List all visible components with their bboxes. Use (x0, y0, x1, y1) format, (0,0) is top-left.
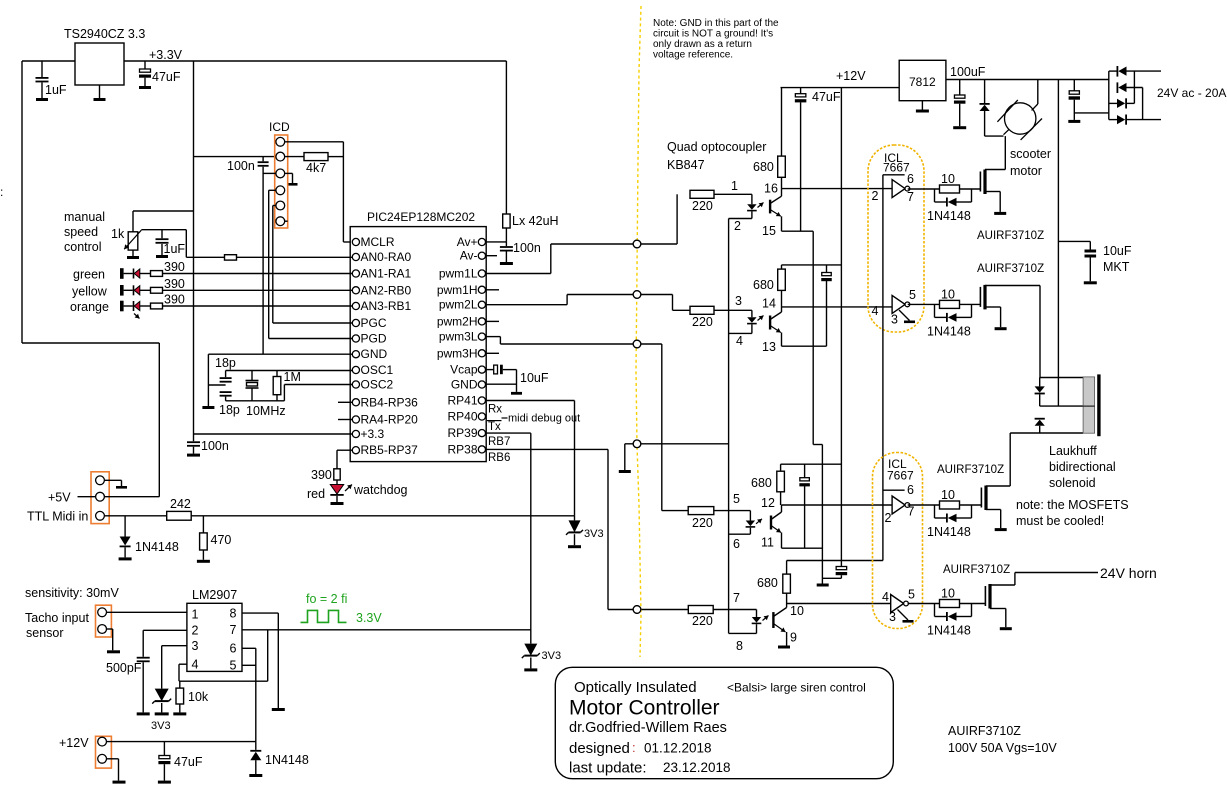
svg-text:220: 220 (692, 614, 713, 628)
svg-text:RP38: RP38 (447, 442, 477, 456)
svg-text:designed: designed (569, 740, 630, 757)
ground regulator (99, 85, 101, 98)
svg-text:5: 5 (733, 492, 740, 506)
wire solenoid bottom rail (1010, 432, 1083, 434)
capacitor 500pF (142, 630, 144, 657)
capacitor 47uF 12V (163, 742, 165, 756)
pin MCLR (352, 238, 359, 245)
pin Av+ (478, 238, 485, 245)
wire pin6 U4 (882, 175, 884, 561)
svg-text:3: 3 (735, 294, 742, 308)
wire LM pin6 (242, 647, 256, 649)
optocoupler LED 5-6 (749, 511, 751, 521)
capacitor 10uF Vcap (486, 369, 494, 371)
wire GND pin (208, 353, 352, 355)
svg-text:Laukhuff: Laukhuff (1049, 444, 1097, 458)
diode 1N4148 gate (934, 189, 936, 202)
svg-text:RA4-RP20: RA4-RP20 (361, 413, 419, 427)
svg-text:+3.3: +3.3 (361, 427, 385, 441)
ground 100n (187, 454, 200, 457)
node pwm1L (633, 240, 641, 248)
svg-text:manual: manual (64, 210, 105, 224)
svg-text:1N4148: 1N4148 (927, 624, 971, 638)
wire ICD pin1 to MCLR (285, 141, 344, 143)
svg-text:5: 5 (230, 659, 237, 673)
svg-text:RB5-RP37: RB5-RP37 (361, 443, 419, 457)
svg-text:RB7: RB7 (488, 436, 510, 448)
svg-text:7667: 7667 (887, 469, 914, 483)
svg-text:+3.3V: +3.3V (149, 48, 183, 62)
ground 7812 (921, 101, 923, 110)
wire frame bottom to +5V (22, 342, 159, 344)
pin RB5-RP37 (352, 447, 359, 454)
resistor 680 opto3 (780, 464, 782, 471)
svg-text:Rx: Rx (488, 404, 502, 416)
svg-text:1N4148: 1N4148 (927, 209, 971, 223)
pin GND (352, 351, 359, 358)
wire ICD pin6 stub (285, 220, 288, 222)
svg-text:yellow: yellow (72, 284, 108, 298)
svg-text:pwm2L: pwm2L (439, 298, 478, 312)
svg-text:7: 7 (908, 505, 915, 519)
svg-text:Vcap: Vcap (450, 363, 478, 377)
svg-text:24V ac - 20A: 24V ac - 20A (1157, 86, 1226, 100)
waveform square (301, 610, 347, 622)
wire ICD pin4 to PGD (269, 189, 276, 191)
wire Av- stub (486, 255, 497, 257)
ground 100n Av (500, 262, 513, 265)
isolation boundary yellow (636, 6, 641, 657)
svg-text:PIC24EP128MC202: PIC24EP128MC202 (367, 210, 475, 224)
svg-text:4: 4 (736, 334, 743, 348)
ground tacho pin2 (107, 628, 113, 630)
svg-text:control: control (64, 240, 102, 254)
wire LM pin5 (242, 664, 256, 666)
resistor 220 opto2 (690, 306, 714, 314)
wire emitter11 (782, 547, 823, 549)
svg-text:pwm3H: pwm3H (437, 346, 478, 360)
bridge rectifier (1108, 71, 1110, 120)
svg-text:OSC2: OSC2 (361, 378, 394, 392)
svg-text:3.3V: 3.3V (356, 611, 382, 625)
svg-text:MKT: MKT (1103, 260, 1130, 274)
pin Vcap (478, 366, 485, 373)
pin RB4-RP36 (352, 399, 359, 406)
MOSFET AUIRF3710Z (984, 586, 986, 606)
svg-text:RP41: RP41 (447, 394, 477, 408)
wire M2 drain rail (1040, 377, 1083, 379)
svg-text:Motor Controller: Motor Controller (569, 697, 720, 720)
capacitor 100n Av (505, 242, 507, 246)
diode solenoid lower (1035, 418, 1045, 420)
svg-text:1M: 1M (284, 370, 301, 384)
svg-text:680: 680 (753, 160, 774, 174)
wire collector16 row (782, 188, 893, 190)
svg-text:PGC: PGC (361, 316, 387, 330)
wire 24V vertical (1057, 80, 1059, 407)
wire solenoid mid rail (1040, 405, 1083, 407)
wire LM pin2 (143, 629, 187, 631)
ground return (624, 444, 626, 470)
pin pwm2H (478, 318, 485, 325)
wire +12V opto rail (781, 87, 900, 89)
wire +3.3V rail (193, 61, 195, 441)
wire +5V (104, 496, 159, 498)
optocoupler LED 7-8 (756, 610, 758, 618)
svg-text:100V 50A Vgs=10V: 100V 50A Vgs=10V (948, 741, 1057, 755)
svg-text:4: 4 (872, 304, 879, 318)
resistor 10k (179, 681, 181, 688)
svg-text:TS2940CZ 3.3: TS2940CZ 3.3 (64, 27, 145, 41)
wire +12V horn rail (787, 560, 883, 562)
resistor 1M (276, 371, 278, 377)
wire emitter13 (782, 345, 827, 347)
svg-text:680: 680 (751, 476, 772, 490)
IC U3 LM2907 (187, 603, 242, 671)
svg-text:9: 9 (790, 631, 797, 645)
node return (633, 440, 641, 448)
svg-text:solenoid: solenoid (1049, 476, 1096, 490)
wire source M3 ground (986, 509, 1001, 511)
wire OSC2 loop (226, 400, 285, 402)
zener 3V3 LM (155, 689, 169, 702)
svg-text:PGD: PGD (361, 332, 387, 346)
crystal 10MHz (251, 371, 253, 381)
svg-text:1uF: 1uF (45, 83, 67, 97)
motor scooter (1005, 103, 1036, 134)
svg-text:01.12.2018: 01.12.2018 (644, 741, 712, 756)
svg-text:10uF: 10uF (1103, 244, 1132, 258)
wire ICD pin3 stub (263, 172, 276, 174)
pin RP40 (478, 413, 485, 420)
svg-text:AN1-RA1: AN1-RA1 (361, 267, 412, 281)
wire return line (812, 231, 814, 444)
svg-text:speed: speed (64, 225, 98, 239)
pin OSC1 (352, 366, 359, 373)
svg-text:<Balsi> large siren control: <Balsi> large siren control (727, 681, 866, 695)
resistor 242 (167, 511, 192, 520)
capacitor 1uF input (41, 61, 43, 77)
resistor 10 gate (908, 603, 940, 605)
svg-text:6: 6 (907, 172, 914, 186)
svg-text:100n: 100n (201, 439, 229, 453)
pin RA4-RP20 (352, 416, 359, 423)
svg-text:voltage reference.: voltage reference. (653, 50, 733, 61)
svg-text:10: 10 (790, 604, 804, 618)
wire drain M3 (986, 485, 1010, 487)
pin Av- (478, 252, 485, 259)
svg-text:1: 1 (731, 179, 738, 193)
connector +12V (96, 736, 112, 768)
pin AN2-RB0 (352, 287, 359, 294)
pin +3.3 (352, 430, 359, 437)
svg-text:10MHz: 10MHz (246, 404, 286, 418)
capacitor 18p bottom (220, 391, 232, 393)
resistor 220 opto1 (690, 190, 714, 198)
ground GND leg (207, 354, 209, 406)
svg-text:MCLR: MCLR (361, 235, 395, 249)
svg-text:7667: 7667 (883, 161, 910, 175)
svg-text:220: 220 (692, 516, 713, 530)
svg-text:pwm2H: pwm2H (437, 314, 478, 328)
ground U4 pin3 (899, 310, 910, 321)
capacitor 47uF output (144, 61, 146, 69)
svg-text:RP40: RP40 (447, 410, 477, 424)
svg-text:7812: 7812 (909, 75, 936, 89)
wire pot top to rail (132, 211, 134, 232)
svg-text:AUIRF3710Z: AUIRF3710Z (937, 464, 1004, 476)
capacitor 100n ICD (262, 157, 264, 162)
svg-text:must be cooled!: must be cooled! (1016, 514, 1104, 528)
pin pwm3L (478, 333, 485, 340)
capacitor 100n stage3 (804, 464, 806, 478)
wire collector10 row (787, 603, 891, 605)
svg-text:242: 242 (170, 497, 191, 511)
diode 1N4148 gate (934, 604, 936, 617)
svg-text:10: 10 (941, 587, 955, 601)
svg-text:sensitivity: 30mV: sensitivity: 30mV (25, 586, 119, 600)
svg-text:pwm1H: pwm1H (437, 283, 478, 297)
svg-text:1uF: 1uF (164, 242, 186, 256)
resistor 10 gate (908, 188, 940, 190)
wire RB4 stub (338, 401, 352, 403)
inductor Lx 42uH (505, 61, 507, 214)
svg-text:10: 10 (941, 488, 955, 502)
solenoid core (1083, 377, 1095, 433)
wire +3.3 to ICD pin2 (194, 156, 276, 158)
diode 1N4148 12V (255, 742, 257, 750)
ground emitter9 (786, 632, 788, 646)
svg-text:only drawn as a return: only drawn as a return (653, 39, 752, 50)
wire OSC1 (226, 370, 353, 372)
wire PGD (269, 338, 353, 340)
svg-text:1k: 1k (111, 227, 125, 241)
svg-text:100uF: 100uF (950, 65, 986, 79)
svg-text:3: 3 (889, 610, 896, 624)
ground conn pin1 (104, 479, 121, 481)
connector ICD (275, 135, 288, 228)
inverter U4A (892, 180, 905, 198)
wire drain M2 (985, 285, 1040, 287)
resistor 470 (202, 516, 204, 533)
wire RB7 RP39 (486, 432, 531, 434)
wire pot wiper to AN0 (141, 229, 186, 231)
svg-text:12: 12 (761, 496, 775, 510)
wire 18p mid to ground (208, 384, 225, 386)
svg-text:4: 4 (882, 590, 889, 604)
wire GND2 pin (486, 383, 517, 385)
svg-text:2: 2 (872, 189, 879, 203)
svg-text:3V3: 3V3 (542, 650, 562, 662)
pin AN3-RB1 (352, 302, 359, 309)
svg-text:AN3-RB1: AN3-RB1 (361, 299, 412, 313)
optocoupler LED 3-4 (751, 310, 753, 317)
svg-text:fo = 2 fi: fo = 2 fi (306, 592, 347, 606)
IC ICL7667 upper box (868, 145, 924, 332)
pin RP39 (478, 430, 485, 437)
svg-text::: : (632, 740, 636, 755)
IC U1 PIC24EP128MC202 (350, 227, 486, 462)
wire left frame vertical (21, 61, 23, 343)
svg-text:RP39: RP39 (447, 426, 477, 440)
MOSFET AUIRF3710Z (979, 287, 981, 307)
svg-text:GND: GND (361, 347, 388, 361)
svg-text:red: red (307, 487, 325, 501)
MOSFET AUIRF3710Z (979, 172, 981, 192)
svg-text:3V3: 3V3 (151, 720, 171, 732)
svg-text:Tx: Tx (488, 421, 501, 433)
svg-text:AUIRF3710Z: AUIRF3710Z (948, 724, 1021, 738)
wire pwm2H stub (486, 320, 499, 322)
title box (555, 667, 893, 778)
svg-text:AN2-RB0: AN2-RB0 (361, 283, 412, 297)
svg-text:1: 1 (192, 608, 199, 622)
svg-text:220: 220 (692, 315, 713, 329)
svg-text:10uF: 10uF (520, 371, 549, 385)
svg-text:680: 680 (757, 576, 778, 590)
capacitor 100uF (959, 80, 961, 96)
resistor 390 watchdog (334, 469, 340, 480)
resistor 220 opto3 (688, 507, 714, 515)
capacitor AC filter (1073, 80, 1075, 91)
capacitor 100n stage2 (826, 265, 828, 273)
wire LM pin3 (162, 645, 187, 647)
svg-text:3: 3 (192, 639, 199, 653)
svg-text:orange: orange (70, 300, 109, 314)
ground U5 pin3 (898, 610, 909, 621)
svg-text:1N4148: 1N4148 (265, 753, 309, 767)
svg-text:Tacho input: Tacho input (25, 611, 89, 625)
pin AN0-RA0 (352, 253, 359, 260)
svg-text:390: 390 (311, 468, 332, 482)
svg-text:Av+: Av+ (457, 235, 478, 249)
svg-text:LM2907: LM2907 (192, 588, 237, 602)
svg-text:100n: 100n (227, 159, 255, 173)
svg-text:7: 7 (230, 623, 237, 637)
pin RP41 (478, 397, 485, 404)
pin pwm3H (478, 350, 485, 357)
svg-text:+5V: +5V (48, 491, 71, 505)
wire motor bottom (984, 111, 986, 136)
svg-text:10: 10 (941, 172, 955, 186)
svg-text::: : (0, 185, 3, 199)
ground Vcap (511, 392, 522, 395)
wire +12V bottom (107, 741, 256, 743)
svg-text:24V horn: 24V horn (1100, 565, 1157, 581)
svg-text:pwm3L: pwm3L (439, 330, 478, 344)
svg-text:AN0-RA0: AN0-RA0 (361, 250, 412, 264)
inverter U4B (892, 295, 905, 313)
diode flyback motor (984, 80, 986, 104)
wire pin4 rail (179, 680, 268, 682)
ground +12V pin2 (107, 758, 119, 760)
svg-text:5: 5 (909, 288, 916, 302)
wire RA4 stub (338, 419, 352, 421)
resistor 680 opto2 (781, 265, 783, 269)
wire pin6 U5 (883, 489, 905, 491)
resistor 680 opto1 (781, 88, 783, 157)
svg-text:15: 15 (762, 224, 776, 238)
wire KB847 return (625, 443, 729, 445)
wire RB5 to watchdog (337, 449, 352, 451)
wire AC cap to bridge (1074, 112, 1109, 114)
wire 7812 out (946, 79, 1109, 81)
wire pwm1L route (486, 273, 551, 275)
node RB6 (633, 606, 641, 614)
wire +3.3 pin (194, 433, 353, 435)
svg-text:bidirectional: bidirectional (1049, 460, 1116, 474)
resistor 680 opto4 (786, 561, 788, 575)
svg-text:midi debug out: midi debug out (508, 413, 580, 425)
svg-text:2: 2 (192, 624, 199, 638)
svg-text:AUIRF3710Z: AUIRF3710Z (943, 564, 1010, 576)
svg-text:Note: GND in this part of the: Note: GND in this part of the (653, 18, 779, 29)
diode 1N4148 gate (934, 505, 936, 518)
svg-text:390: 390 (164, 293, 185, 307)
wire stage3 rail (781, 463, 842, 465)
regulator 7812 (899, 60, 946, 100)
capacitor 47uF lower (836, 567, 847, 570)
resistor AN0 series (225, 255, 237, 260)
capacitor 10uF MKT (1058, 240, 1090, 242)
connector +5V TTL (91, 472, 109, 524)
svg-text:10k: 10k (188, 690, 209, 704)
inverter U5B (891, 595, 904, 613)
svg-text:7: 7 (733, 591, 740, 605)
pin PGD (352, 335, 359, 342)
inverter U5A (892, 496, 905, 514)
pin PGC (352, 319, 359, 326)
pin OSC2 (352, 381, 359, 388)
svg-text:16: 16 (764, 182, 778, 196)
svg-text:4k7: 4k7 (306, 161, 326, 175)
wire collector12 row (782, 504, 893, 506)
svg-text:2: 2 (734, 219, 741, 233)
ground ICD pin3 (289, 183, 298, 186)
svg-text:18p: 18p (215, 356, 236, 370)
svg-text:Av-: Av- (460, 249, 478, 263)
svg-text:+12V: +12V (59, 736, 89, 750)
node circles over boundary (633, 240, 641, 248)
wire pwm3H stub (486, 352, 499, 354)
svg-text:6: 6 (733, 537, 740, 551)
wire drain M4 horn (990, 584, 1015, 586)
svg-text:AUIRF3710Z: AUIRF3710Z (977, 263, 1044, 275)
wire source M2 ground (985, 306, 1001, 308)
svg-text:470: 470 (211, 533, 232, 547)
wire LM pin8 ground (242, 612, 278, 614)
wire RB6 RP38 (486, 448, 608, 450)
svg-text:scooter: scooter (1010, 147, 1051, 161)
wire +12V drop (840, 88, 842, 567)
wire Av+ (486, 241, 507, 243)
svg-text:1N4148: 1N4148 (927, 324, 971, 338)
wire Rx RP41 (486, 400, 575, 402)
svg-text:47uF: 47uF (174, 755, 203, 769)
svg-text:Quad optocoupler: Quad optocoupler (667, 140, 766, 154)
svg-text:ICD: ICD (269, 120, 290, 134)
regulator U2 TS2940CZ 3.3 (75, 43, 124, 85)
IC ICL7667 lower box (873, 453, 923, 629)
svg-text:5: 5 (908, 588, 915, 602)
svg-text:GND: GND (451, 378, 478, 392)
svg-text:23.12.2018: 23.12.2018 (663, 760, 731, 775)
svg-text:watchdog: watchdog (353, 483, 408, 497)
svg-text:+12V: +12V (836, 69, 866, 83)
MOSFET AUIRF3710Z (980, 488, 982, 508)
diode solenoid upper (1039, 378, 1041, 387)
svg-text:sensor: sensor (26, 626, 64, 640)
